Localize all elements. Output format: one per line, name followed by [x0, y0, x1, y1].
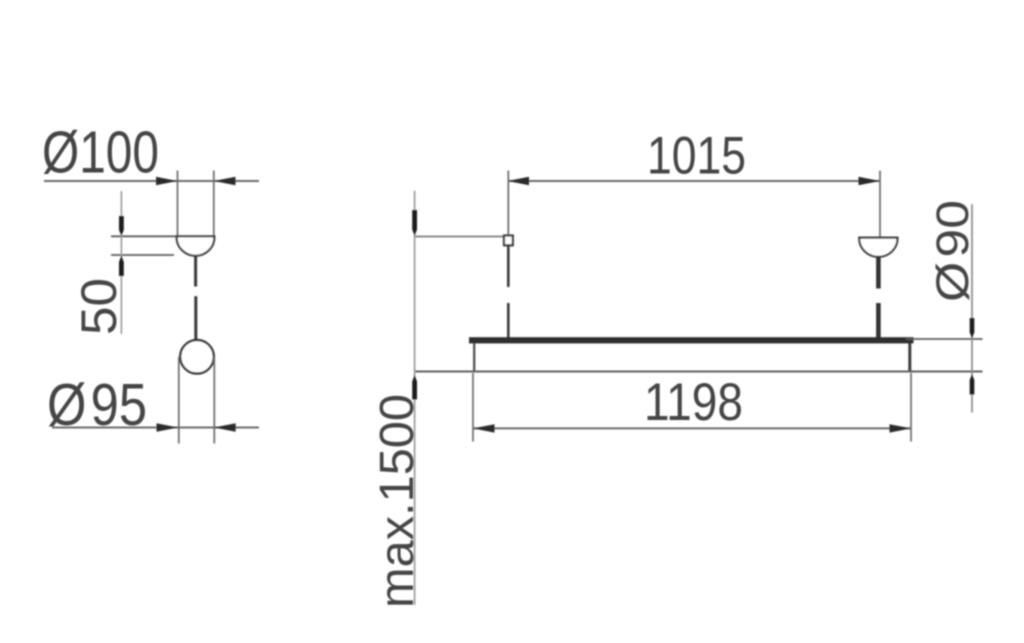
arrow Ø95 right — [214, 423, 236, 431]
extension line ball right — [213, 357, 215, 444]
extension line 1198 left — [472, 373, 474, 442]
arrow Ø90 top — [970, 318, 975, 338]
body bottom line with extensions — [415, 371, 983, 373]
extension line suspension left — [507, 171, 509, 236]
extension line ball left — [178, 357, 180, 444]
svg-text:1015: 1015 — [647, 127, 746, 186]
dimension line 1198 — [473, 427, 911, 429]
extension line suspension right — [879, 171, 881, 238]
arrow Ø95 left — [157, 423, 179, 431]
stem upper segment right — [876, 257, 881, 289]
ceiling line left — [415, 236, 504, 238]
stem lower segment — [194, 296, 197, 339]
extension line Ø90 top — [906, 338, 983, 340]
svg-text:max.1500: max.1500 — [371, 394, 424, 608]
extension line canopy right — [213, 171, 215, 237]
svg-text:1198: 1198 — [644, 373, 743, 432]
canopy detail (cup) — [177, 236, 215, 255]
arrow Ø100 left — [156, 177, 178, 185]
dimension line Ø95 — [52, 427, 259, 429]
arrow 50 bottom — [119, 256, 124, 276]
body right wall — [908, 343, 911, 372]
dimension line 1015 — [508, 180, 881, 182]
svg-text:Ø100: Ø100 — [42, 120, 159, 186]
dimension line Ø90 (vertical) — [971, 204, 973, 412]
extension line 50 bottom — [111, 254, 174, 256]
extension line 1198 right — [910, 373, 912, 442]
stem upper segment — [194, 256, 197, 287]
dimension line 50 (vertical) — [120, 191, 122, 334]
arrow max1500 top — [412, 210, 417, 236]
cable upper segment — [507, 246, 510, 288]
arrow Ø90 bottom — [970, 374, 975, 394]
svg-text:50: 50 — [71, 278, 127, 335]
canopy right suspension — [859, 238, 897, 257]
arrow Ø100 right — [214, 177, 236, 185]
body left wall — [473, 343, 475, 372]
arrow max1500 bottom — [412, 375, 417, 400]
cable lower segment — [507, 303, 510, 339]
arrow 1015 right — [859, 177, 881, 185]
svg-text:Ø 90: Ø 90 — [927, 200, 978, 302]
arrow 50 top — [119, 216, 124, 236]
dimension line Ø100 — [44, 180, 259, 182]
arrow 1198 right — [890, 424, 912, 432]
arrow 1015 left — [508, 177, 530, 185]
arrow 1198 left — [473, 424, 495, 432]
ball Ø95 — [180, 340, 214, 374]
cable gripper square — [504, 236, 513, 246]
max.1500 dimension line (vertical) — [414, 191, 416, 605]
luminaire body top plate — [469, 337, 914, 343]
extension line canopy left — [177, 171, 179, 237]
stem lower segment right — [876, 303, 881, 339]
extension line 50 top — [111, 235, 177, 237]
